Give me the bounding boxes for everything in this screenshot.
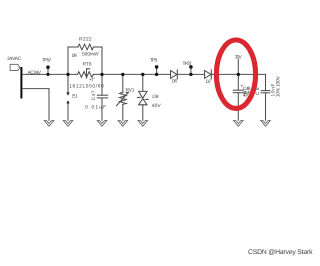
node TP5 junction: [155, 73, 158, 76]
varistor RV1 stem bottom: [122, 105, 124, 121]
capacitor C8 stem top: [265, 74, 267, 90]
wire neutral horizontal: [22, 88, 49, 90]
wire main AC line seg4: [211, 73, 265, 75]
node TP57 junction: [46, 73, 49, 76]
varistor RV1 stem top: [122, 74, 124, 92]
svg-text:1812L050/60: 1812L050/60: [69, 84, 104, 90]
svg-text:AC24V: AC24V: [28, 70, 42, 76]
TVS D8 stem bottom: [142, 105, 144, 121]
node D8: [141, 73, 144, 76]
ground (neutral): [44, 121, 54, 127]
wire block top left segment: [68, 46, 78, 48]
svg-text:RV1: RV1: [126, 88, 135, 94]
svg-text:TP57: TP57: [42, 58, 52, 64]
varistor RV1 zigzag: [120, 92, 127, 104]
surge arrester E1 stem top: [67, 74, 69, 92]
TVS D8 top triangle: [139, 91, 147, 98]
svg-text:10% 100V: 10% 100V: [276, 76, 282, 98]
TVS D8 bottom triangle: [139, 99, 147, 105]
testpoint TP5 stub: [156, 69, 158, 75]
svg-text:E1: E1: [72, 93, 78, 99]
capacitor C8 stem bottom: [265, 93, 267, 121]
diode D6: [171, 71, 177, 79]
capacitor C48 plates: [233, 89, 243, 91]
svg-text:0.01uF: 0.01uF: [85, 104, 106, 110]
wire block top right segment: [94, 46, 103, 48]
capacitor C48 stem top: [237, 74, 239, 90]
capacitor C47 stem top: [101, 74, 103, 95]
testpoint TP37 dot: [189, 65, 193, 69]
connector body bar: [20, 67, 22, 99]
node 30V / C48: [237, 73, 240, 76]
svg-text:TP37: TP37: [183, 61, 193, 67]
node block right / C47: [100, 73, 103, 76]
svg-text:40V: 40V: [243, 93, 249, 98]
varistor RV1 diagonal: [117, 92, 129, 105]
svg-text:D7: D7: [206, 79, 212, 85]
svg-text:24VAC: 24VAC: [7, 56, 21, 62]
labels: [7, 37, 281, 111]
ground (RV1): [118, 121, 128, 127]
wire main AC line seg1: [22, 73, 77, 75]
ground (E1): [63, 121, 73, 127]
svg-text:R222: R222: [79, 37, 92, 43]
svg-text:CSDN @Harvey Stark: CSDN @Harvey Stark: [248, 249, 313, 256]
wire main AC line seg3: [177, 73, 204, 75]
junction dots: [46, 65, 240, 76]
svg-text:TP5: TP5: [150, 58, 158, 64]
thermistor RT6: [78, 72, 94, 78]
surge arrester E1 up arrow: [66, 100, 69, 103]
capacitor C47 plates: [97, 94, 107, 96]
capacitor C47 stem bottom: [101, 98, 103, 120]
testpoint TP37 stub: [190, 69, 192, 75]
svg-text:RT6: RT6: [83, 62, 92, 68]
svg-text:D8: D8: [152, 94, 159, 100]
testpoint TP57 stub: [47, 69, 49, 75]
ground (C8): [261, 121, 271, 127]
thermistor RT6 tick mark: [87, 69, 90, 78]
TVS D8 right hook: [145, 98, 148, 100]
wire neutral vertical: [48, 89, 50, 121]
ground (D8): [138, 121, 148, 127]
capacitor C48 stem bottom: [237, 93, 239, 121]
wire block right vertical: [101, 47, 103, 74]
svg-text:+t°: +t°: [89, 77, 95, 83]
node TP37 junction: [189, 73, 192, 76]
connector J 24VAC plug shape: [10, 64, 20, 70]
net 30V stub: [237, 60, 239, 75]
resistor R222: [78, 44, 94, 50]
surge arrester E1 down arrow: [66, 92, 69, 95]
annotation red ellipse: [216, 40, 255, 108]
svg-text:0R: 0R: [72, 53, 78, 59]
svg-text:30V: 30V: [235, 54, 243, 60]
svg-text:40V: 40V: [152, 103, 162, 109]
capacitor C8 plates: [261, 90, 270, 92]
ground (C48): [234, 121, 244, 127]
svg-text:D6: D6: [172, 78, 178, 84]
node RV1: [121, 73, 124, 76]
svg-text:C47: C47: [91, 90, 97, 100]
surge arrester E1 stem bottom: [67, 104, 69, 121]
node block left: [66, 73, 69, 76]
wire main AC line seg2: [94, 73, 171, 75]
ground (C47): [97, 121, 107, 127]
testpoint TP57 dot: [46, 65, 50, 69]
diode D7: [205, 71, 211, 79]
wire block left vertical: [67, 47, 69, 74]
TVS D8 stem top: [142, 74, 144, 91]
TVS D8 left hook: [137, 96, 140, 98]
testpoint TP5 dot: [155, 65, 159, 69]
svg-text:500mW: 500mW: [82, 52, 99, 58]
